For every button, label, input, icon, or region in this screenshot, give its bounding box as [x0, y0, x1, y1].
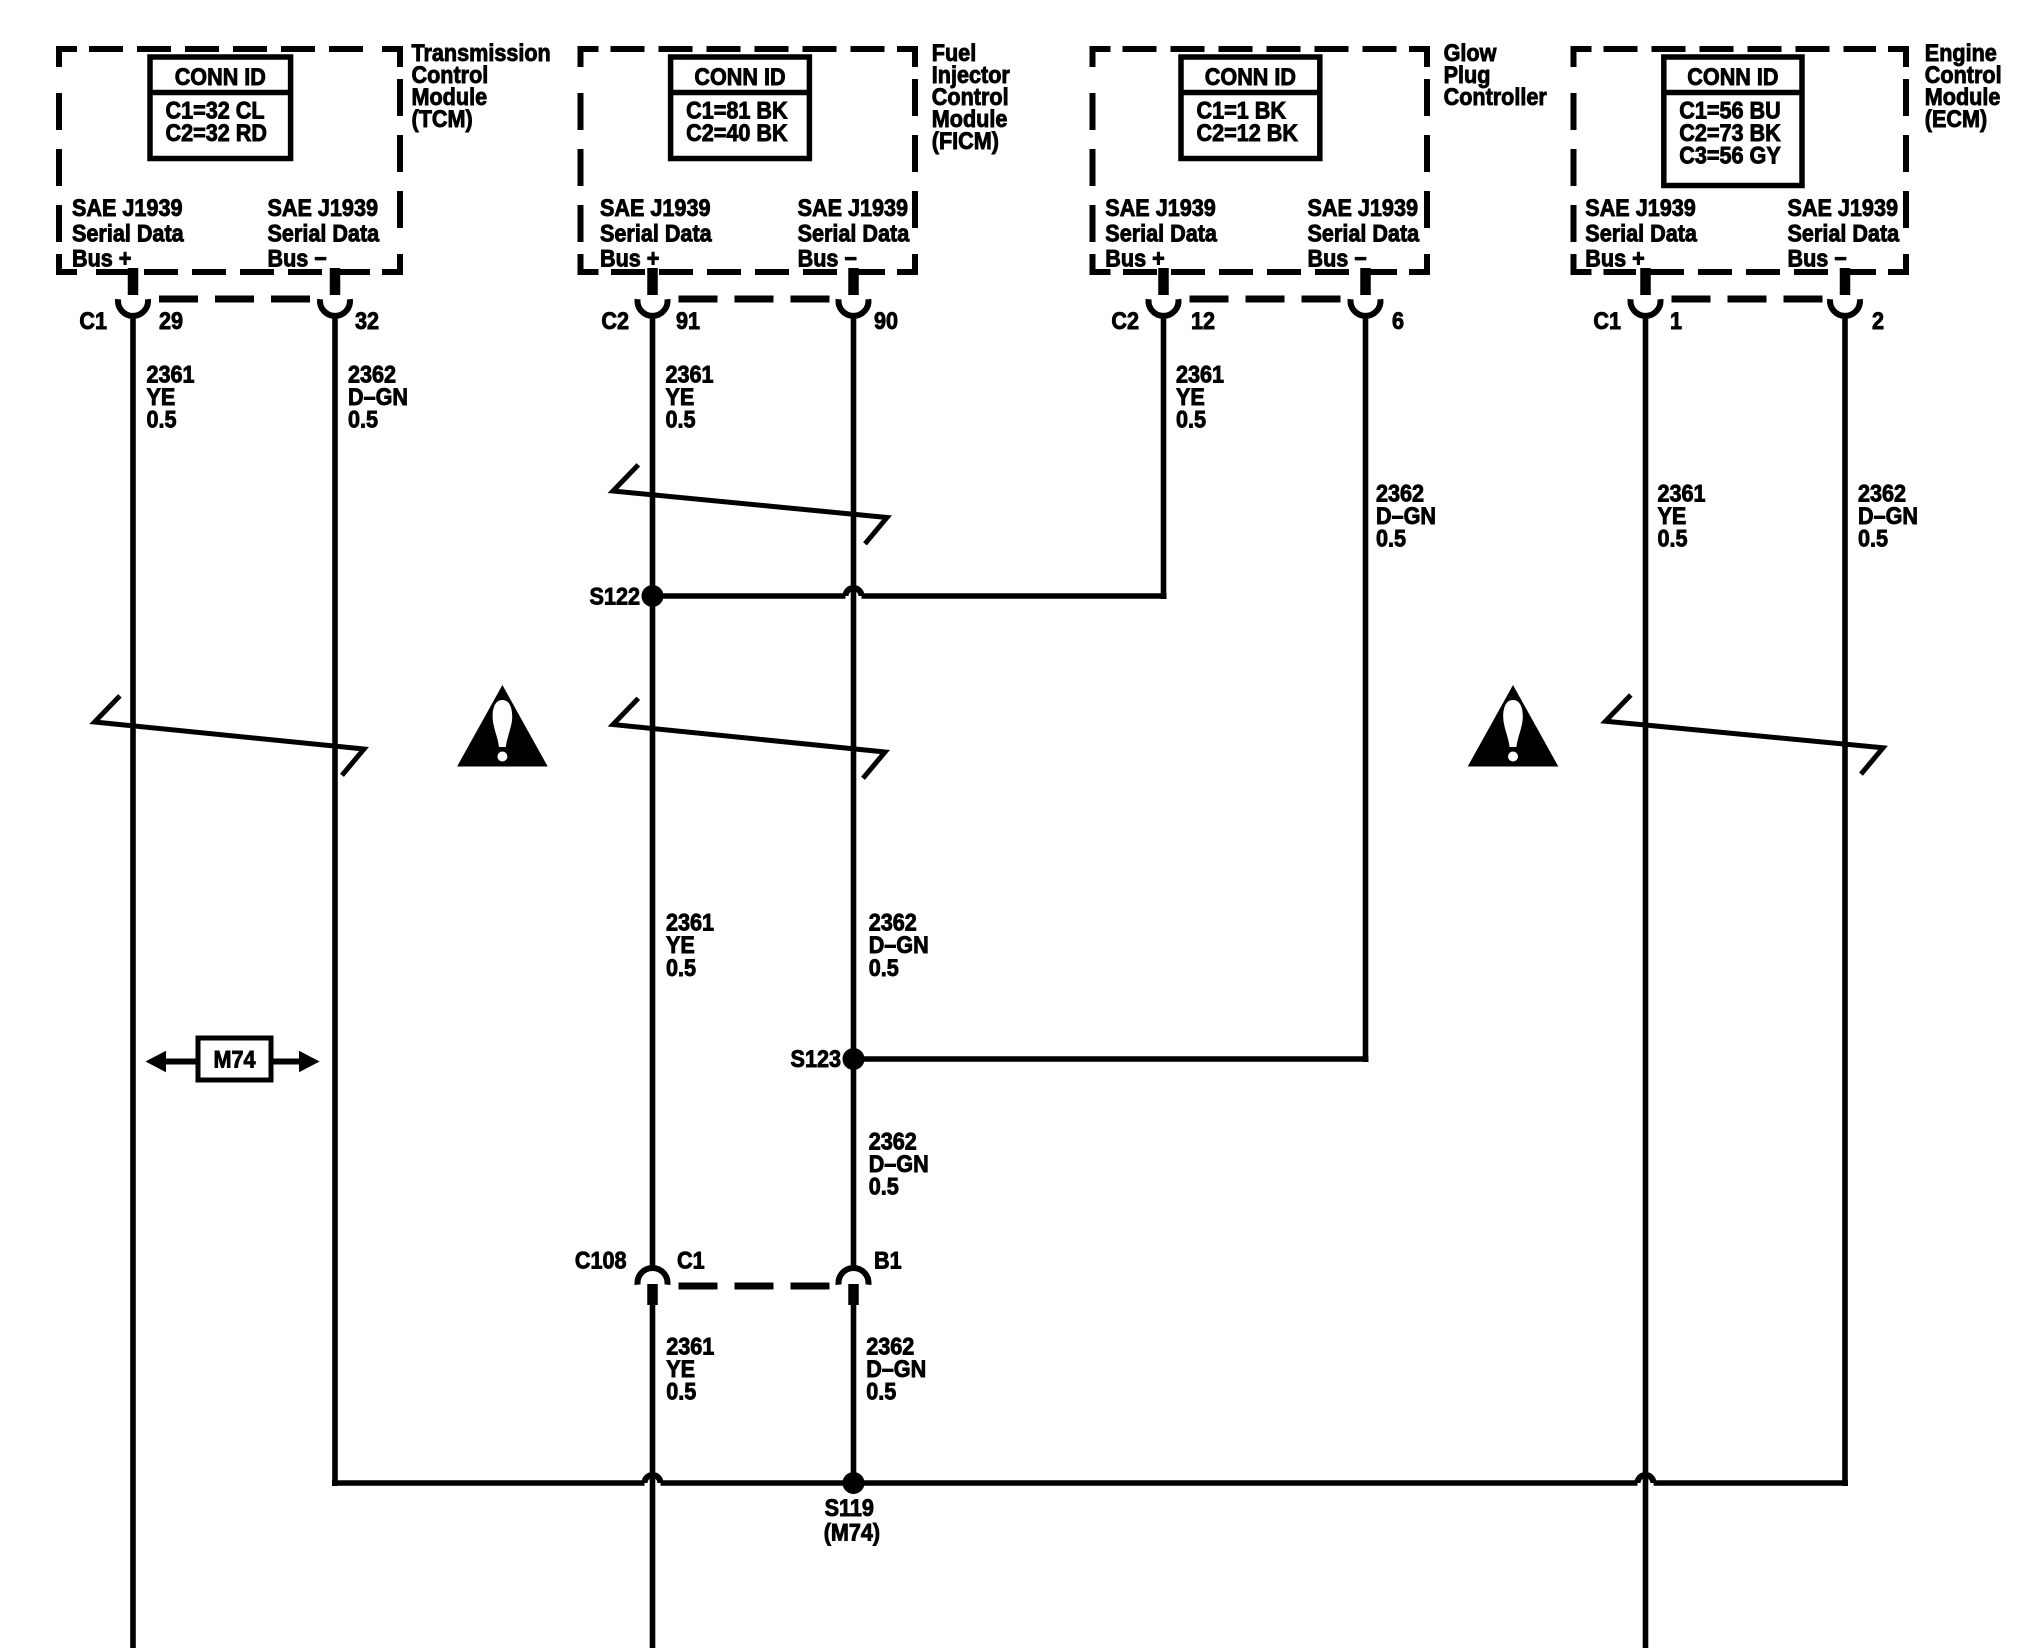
- svg-text:(FICM): (FICM): [932, 127, 999, 154]
- svg-text:0.5: 0.5: [869, 1173, 899, 1200]
- svg-text:(TCM): (TCM): [412, 105, 473, 132]
- svg-text:0.5: 0.5: [666, 954, 696, 981]
- svg-text:C108: C108: [575, 1246, 627, 1273]
- svg-text:CONN ID: CONN ID: [175, 63, 266, 90]
- svg-text:(M74): (M74): [824, 1519, 880, 1546]
- svg-text:6: 6: [1392, 307, 1404, 334]
- svg-text:0.5: 0.5: [1658, 525, 1688, 552]
- svg-text:Serial Data: Serial Data: [1105, 219, 1217, 246]
- svg-text:91: 91: [676, 307, 700, 334]
- svg-text:0.5: 0.5: [666, 1378, 696, 1405]
- svg-text:CONN ID: CONN ID: [1205, 63, 1296, 90]
- svg-text:C3=56 GY: C3=56 GY: [1679, 142, 1780, 169]
- svg-text:CONN ID: CONN ID: [694, 63, 785, 90]
- svg-text:90: 90: [874, 307, 898, 334]
- svg-text:Bus +: Bus +: [600, 245, 659, 272]
- svg-text:Serial Data: Serial Data: [600, 219, 712, 246]
- svg-text:S123: S123: [791, 1045, 841, 1072]
- svg-text:SAE J1939: SAE J1939: [268, 194, 378, 221]
- svg-text:2: 2: [1872, 307, 1884, 334]
- svg-text:Bus −: Bus −: [268, 245, 327, 272]
- svg-text:C2: C2: [1111, 307, 1139, 334]
- svg-text:Bus −: Bus −: [798, 245, 857, 272]
- svg-text:S122: S122: [590, 582, 640, 609]
- svg-text:C2=12 BK: C2=12 BK: [1197, 119, 1299, 146]
- svg-text:0.5: 0.5: [1858, 525, 1888, 552]
- svg-text:S119: S119: [825, 1494, 874, 1521]
- svg-text:C1: C1: [79, 307, 107, 334]
- svg-text:Serial Data: Serial Data: [1585, 219, 1697, 246]
- svg-text:M74: M74: [213, 1045, 255, 1072]
- svg-text:SAE J1939: SAE J1939: [1585, 194, 1695, 221]
- svg-text:CONN ID: CONN ID: [1687, 63, 1778, 90]
- svg-text:0.5: 0.5: [869, 954, 899, 981]
- svg-text:SAE J1939: SAE J1939: [1788, 194, 1898, 221]
- svg-text:0.5: 0.5: [348, 405, 378, 432]
- svg-text:Serial Data: Serial Data: [1308, 219, 1420, 246]
- svg-text:Serial Data: Serial Data: [798, 219, 910, 246]
- svg-text:C1: C1: [1593, 307, 1621, 334]
- svg-text:C2: C2: [601, 307, 629, 334]
- svg-text:0.5: 0.5: [866, 1378, 896, 1405]
- svg-text:C2=40 BK: C2=40 BK: [686, 119, 788, 146]
- svg-text:C2=32 RD: C2=32 RD: [166, 119, 267, 146]
- svg-text:SAE J1939: SAE J1939: [600, 194, 710, 221]
- svg-text:12: 12: [1191, 307, 1215, 334]
- svg-text:SAE J1939: SAE J1939: [1105, 194, 1215, 221]
- svg-text:B1: B1: [874, 1246, 902, 1273]
- svg-text:Bus +: Bus +: [1585, 245, 1644, 272]
- svg-text:Bus +: Bus +: [1105, 245, 1164, 272]
- svg-text:SAE J1939: SAE J1939: [798, 194, 908, 221]
- svg-text:Controller: Controller: [1444, 83, 1547, 110]
- svg-text:0.5: 0.5: [1376, 525, 1406, 552]
- svg-text:SAE J1939: SAE J1939: [72, 194, 182, 221]
- svg-text:0.5: 0.5: [666, 405, 696, 432]
- svg-text:0.5: 0.5: [1176, 405, 1206, 432]
- svg-text:Serial Data: Serial Data: [1788, 219, 1900, 246]
- svg-text:Serial Data: Serial Data: [268, 219, 380, 246]
- svg-text:Serial Data: Serial Data: [72, 219, 184, 246]
- svg-text:1: 1: [1670, 307, 1682, 334]
- svg-text:Bus +: Bus +: [72, 245, 131, 272]
- svg-text:C1: C1: [677, 1246, 705, 1273]
- svg-text:SAE J1939: SAE J1939: [1308, 194, 1418, 221]
- svg-text:29: 29: [159, 307, 183, 334]
- svg-text:Bus −: Bus −: [1308, 245, 1367, 272]
- svg-text:(ECM): (ECM): [1925, 105, 1987, 132]
- svg-text:32: 32: [355, 307, 379, 334]
- svg-text:0.5: 0.5: [147, 405, 177, 432]
- svg-text:Bus −: Bus −: [1788, 245, 1847, 272]
